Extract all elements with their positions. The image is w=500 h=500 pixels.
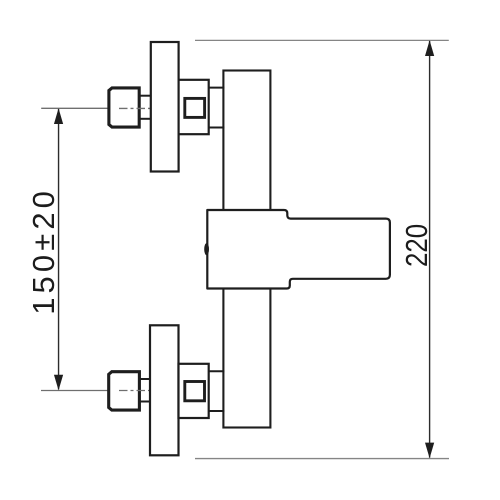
nut-to-flange ring (top) <box>140 96 152 119</box>
wall flange (bottom) <box>150 325 179 455</box>
centerline dash-dot (top) <box>119 107 151 109</box>
wall flange (top) <box>151 42 179 172</box>
svg-text:220: 220 <box>400 224 435 267</box>
inner square (bottom adapter) <box>185 382 205 401</box>
dark bump on block left edge <box>204 243 209 255</box>
adapter block (bottom) <box>179 364 209 418</box>
hex nut (top) <box>109 88 139 127</box>
arrowhead 220 bottom <box>425 443 434 459</box>
adapter block (top) <box>179 80 209 134</box>
extension line top (220 dim) <box>195 39 449 41</box>
mixer block and spout outline <box>207 210 390 289</box>
extension line left-top (gray, to nut) <box>41 107 107 109</box>
extension line bottom (220 dim) <box>195 458 449 460</box>
svg-text:150±20: 150±20 <box>26 187 61 315</box>
nut-to-flange ring (bottom) <box>140 379 152 402</box>
dimension line 150±20 <box>58 109 60 389</box>
faucet body (vertical rectangle) <box>223 71 270 428</box>
arrowhead 150 bottom <box>54 375 63 391</box>
arrowhead 150 top <box>54 108 63 124</box>
arrowhead 220 top <box>425 40 434 56</box>
dimension line 220 <box>429 41 431 458</box>
centerline dash-dot (bottom) <box>119 390 151 392</box>
connector pipe lines to body (top) <box>208 88 224 128</box>
inner square (top adapter) <box>185 98 205 117</box>
extension line left-bottom (gray, to nut) <box>41 390 108 392</box>
hex nut (bottom) <box>109 372 140 410</box>
connector pipe lines to body (bottom) <box>208 371 224 411</box>
